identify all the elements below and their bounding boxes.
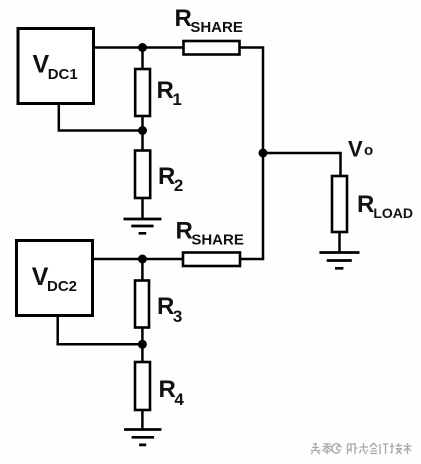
svg-text:R4: R4 (159, 376, 185, 409)
svg-text:RLOAD: RLOAD (357, 191, 413, 221)
svg-text:V: V (348, 137, 363, 162)
svg-text:o: o (364, 142, 373, 159)
svg-text:R2: R2 (158, 163, 183, 195)
svg-text:RSHARE: RSHARE (175, 5, 243, 36)
svg-text:R1: R1 (157, 77, 182, 109)
svg-text:R3: R3 (157, 293, 182, 326)
svg-text:RSHARE: RSHARE (176, 218, 244, 249)
